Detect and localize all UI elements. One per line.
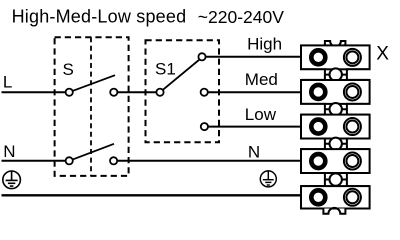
switch S pole 2 left contact — [66, 157, 73, 164]
S1 High contact — [198, 53, 205, 60]
wire L — [2, 91, 70, 93]
switch S enclosure (dashed box) — [55, 37, 129, 176]
svg-text:S1: S1 — [155, 59, 176, 78]
interlock between unit2 and unit3 — [301, 103, 370, 115]
svg-text:L: L — [3, 73, 12, 92]
switch S pole 1 right contact — [110, 89, 117, 96]
svg-text:High: High — [247, 34, 282, 53]
svg-text:Low: Low — [245, 105, 277, 124]
wire S pole1 to S1 common — [114, 91, 160, 93]
interlock between unit3 and unit4 — [301, 138, 370, 150]
svg-text:N: N — [248, 142, 260, 161]
svg-text:Med: Med — [245, 70, 278, 89]
terminal unit 5 (PE) — [301, 186, 370, 208]
svg-text:High-Med-Low speed: High-Med-Low speed — [12, 6, 187, 26]
terminal unit 1 (High) — [301, 45, 370, 69]
S1 common contact — [156, 89, 163, 96]
selector S1 enclosure (dashed box) — [146, 40, 220, 142]
wire Low — [204, 126, 302, 128]
ground symbol (left) — [3, 171, 21, 189]
svg-text:~220-240V: ~220-240V — [198, 7, 284, 27]
S1 Low contact — [201, 123, 208, 130]
terminal unit 2 (Med) — [301, 80, 370, 104]
wire PE (protective earth) — [2, 194, 302, 196]
switch S pole 1 left contact — [66, 89, 73, 96]
svg-text:X: X — [376, 44, 389, 65]
switch S pole 2 blade — [69, 144, 114, 161]
terminal block X: top tab with notch — [325, 41, 346, 46]
S1 Med contact — [201, 89, 208, 96]
ground symbol (middle) — [260, 171, 276, 187]
wire N (left) — [2, 160, 70, 162]
switch S pole 1 blade — [69, 75, 115, 92]
svg-text:S: S — [63, 60, 74, 79]
wire Med — [204, 91, 302, 93]
switch S mechanical link (dashed) — [90, 37, 92, 176]
S1 blade — [160, 60, 200, 93]
svg-text:N: N — [3, 142, 15, 161]
terminal block X: bottom tab with notch — [323, 208, 345, 214]
switch S pole 2 right contact — [110, 157, 117, 164]
interlock between unit1 and unit2 — [301, 68, 370, 80]
wire High — [202, 56, 302, 58]
interlock between unit4 and unit5 — [301, 173, 370, 186]
terminal unit 3 (Low) — [301, 115, 370, 139]
wire N to terminal — [114, 160, 302, 162]
terminal unit 4 (N) — [301, 149, 370, 173]
